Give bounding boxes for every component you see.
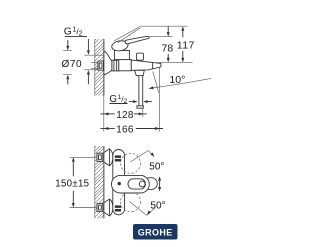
- vertical body column (plan view): [113, 150, 125, 215]
- svg-text:10°: 10°: [169, 74, 185, 86]
- left dim shaft (O70 upper arrow): [63, 40, 71, 51]
- dim 166: [100, 124, 163, 135]
- dim 78: [162, 26, 174, 62]
- extension: pipe to 128 dim: [142, 108, 144, 117]
- GROHE logo: [133, 224, 178, 240]
- handle seen end-on: [144, 178, 157, 190]
- escutcheon (plan view): [104, 199, 113, 216]
- dim 128: [100, 110, 146, 121]
- supply stub threads in wall: [91, 62, 98, 64]
- right dim shaft (G1/2 leader arrow): [84, 39, 103, 55]
- handle swing dashed circle (bottom): [121, 192, 141, 212]
- shower outlet stub: [135, 70, 145, 75]
- escutcheon (side view): [104, 51, 112, 75]
- cartridge dome (lever boss): [111, 40, 129, 52]
- lever handle blade (closed): [125, 36, 149, 44]
- cartridge column: [114, 51, 129, 60]
- hose pipe end cap: [137, 106, 143, 108]
- extension: spout tip down to 166 dim: [159, 68, 161, 132]
- slot circle: [139, 181, 145, 187]
- diverter knob: [136, 53, 143, 60]
- handle swing dashed circle (top): [121, 153, 141, 173]
- svg-text:166: 166: [116, 124, 134, 135]
- wall (lower plan view) hatching: [86, 129, 106, 244]
- svg-text:50°: 50°: [149, 161, 164, 172]
- body slot: [128, 179, 145, 189]
- extension line A (raised lever top): [141, 25, 188, 27]
- O70 lower arrow (left): [63, 75, 71, 85]
- dim 150±15: [55, 157, 97, 207]
- bottom in-wall union (plan view): [97, 203, 103, 211]
- aerator joint line: [152, 63, 154, 69]
- top in-wall union (plan view): [97, 153, 103, 161]
- handle travel double arrow: [158, 176, 161, 191]
- 10 deg annotation: [149, 72, 211, 93]
- extension line B (closed lever top): [150, 36, 173, 38]
- svg-text:GROHE: GROHE: [138, 228, 173, 238]
- valve body (side view): [119, 60, 132, 71]
- bottom union nut marks: [115, 205, 121, 208]
- G1/2 dim arrows at pipe: [129, 100, 152, 103]
- wall face extension line down to dims: [103, 96, 105, 132]
- spout (side view): [131, 60, 161, 70]
- hose pipe: [138, 76, 140, 106]
- wall (upper side view) hatching: [86, 22, 106, 116]
- lower arrow (right): [84, 70, 103, 85]
- svg-text:150±15: 150±15: [55, 178, 89, 189]
- escutcheon (plan view): [104, 149, 113, 166]
- svg-text:117: 117: [177, 39, 195, 51]
- in-wall fitting: [98, 61, 104, 70]
- G 1/2 label top: [64, 26, 87, 37]
- fixing screw dot: [118, 182, 121, 185]
- svg-text:Ø70: Ø70: [62, 59, 83, 70]
- mixer body pill (plan view): [112, 175, 150, 193]
- top union nut marks: [115, 155, 121, 158]
- union nut (side view): [112, 60, 119, 71]
- 50 deg bottom annotation: [130, 200, 166, 215]
- G 1/2 label (hose outlet): [109, 94, 127, 105]
- dim 117: [177, 26, 195, 62]
- svg-text:128: 128: [116, 110, 134, 121]
- lever raised position (phantom): [114, 27, 140, 41]
- baseline extension (spout tip level): [158, 61, 193, 63]
- 50 deg top annotation: [130, 151, 164, 173]
- svg-text:78: 78: [162, 43, 174, 55]
